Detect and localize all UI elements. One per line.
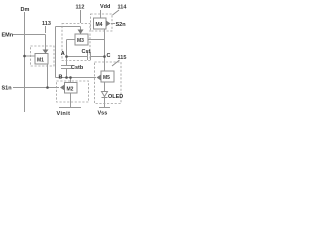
wire M1 source from Dm <box>25 55 36 57</box>
svg-text:M4: M4 <box>96 22 103 28</box>
node dot Dm-M1 junction <box>23 55 26 58</box>
wire M4 gate to S2n <box>111 23 115 25</box>
wire M2 bottom to Vinit <box>70 93 72 107</box>
dashed box 115 around M5 and OLED <box>95 62 122 104</box>
transistor M5 gate arrow <box>97 75 102 81</box>
node dot M1-S1n junction <box>46 86 49 89</box>
dashed box 114 around M4 <box>91 14 113 31</box>
wire Vdd down to M4 <box>100 10 102 18</box>
svg-text:Cstb: Cstb <box>71 65 84 71</box>
wire node B horizontal to M5 gate <box>56 77 97 79</box>
svg-text:115: 115 <box>118 55 127 61</box>
capacitor Cstb top lead from node A <box>66 57 68 66</box>
svg-text:Vss: Vss <box>98 111 108 117</box>
wire M3 gate feed vertical x55 <box>55 27 57 78</box>
transistor M1 gate arrow <box>43 50 49 54</box>
capacitor Cst plates <box>87 52 89 61</box>
transistor M2 body <box>65 83 78 94</box>
transistor M2 gate arrow <box>60 85 65 91</box>
wire Vinit terminal bar <box>59 107 81 109</box>
wire node A to Cst left plate <box>67 56 88 58</box>
wire M3 right terminal to right rail <box>88 39 105 41</box>
wire M1 drain down to S1n row <box>47 64 49 87</box>
wire M3 gate stub <box>80 27 82 30</box>
node C junction dot <box>103 55 106 58</box>
wire EMn horizontal <box>13 34 46 36</box>
dashed box around M2 <box>57 81 89 102</box>
transistor M3 gate arrow <box>78 30 84 35</box>
svg-text:Cst: Cst <box>82 49 91 55</box>
dashed box 113 around M1 <box>31 46 55 66</box>
wire Cst right plate to node C <box>91 56 105 58</box>
svg-text:OLED: OLED <box>108 94 123 100</box>
svg-text:A: A <box>61 51 65 57</box>
svg-text:113: 113 <box>42 21 51 27</box>
leader line for 113 <box>45 26 47 33</box>
wire M3 left corner down to node A <box>66 40 68 57</box>
wire M3 gate feed horizontal y26 <box>56 26 81 28</box>
transistor M4 gate arrow <box>106 21 111 27</box>
transistor M1 body <box>35 54 48 65</box>
dashed box 112 around M3 and Cst <box>62 24 90 61</box>
node B junction dot <box>65 76 68 79</box>
leader line for 115 <box>112 60 120 66</box>
svg-text:S2n: S2n <box>116 22 127 28</box>
svg-text:S1n: S1n <box>2 86 13 92</box>
wire Vss terminal bar <box>99 107 110 109</box>
wire M3 left terminal <box>67 39 76 41</box>
svg-text:112: 112 <box>76 5 85 11</box>
wire M2 channel top to node B <box>70 78 72 83</box>
leader line for 114 <box>113 10 120 15</box>
svg-text:Vinit: Vinit <box>57 111 71 117</box>
svg-text:Dm: Dm <box>21 7 30 13</box>
wire EMn corner down to M1 gate <box>45 35 47 50</box>
transistor M5 body <box>101 71 114 82</box>
transistor M3 body <box>75 34 88 45</box>
wire S1n horizontal <box>13 87 59 89</box>
capacitor Cstb bottom lead to node B <box>66 69 68 78</box>
svg-text:M3: M3 <box>77 38 84 44</box>
leader line for 112 <box>80 10 82 23</box>
svg-text:M2: M2 <box>67 87 74 93</box>
svg-text:C: C <box>107 53 111 59</box>
capacitor Cstb plates <box>61 65 72 67</box>
svg-text:B: B <box>59 75 63 81</box>
svg-text:M1: M1 <box>37 58 44 64</box>
OLED diode triangle <box>102 92 108 97</box>
svg-text:Vdd: Vdd <box>100 4 110 10</box>
svg-text:114: 114 <box>118 5 128 11</box>
wire M5 bottom to OLED anode <box>104 82 106 91</box>
wire node C down to M5 <box>104 57 106 72</box>
node dot M2-B junction <box>69 76 72 79</box>
wire M4 drain down to node C <box>104 29 106 57</box>
svg-text:M5: M5 <box>103 75 110 81</box>
node A junction dot <box>65 55 68 58</box>
transistor M4 body <box>94 18 107 29</box>
svg-text:EMn: EMn <box>2 33 14 39</box>
wire Dm data line vertical <box>24 12 26 112</box>
wire OLED cathode to Vss <box>104 97 106 107</box>
OLED cathode bar <box>102 97 108 99</box>
